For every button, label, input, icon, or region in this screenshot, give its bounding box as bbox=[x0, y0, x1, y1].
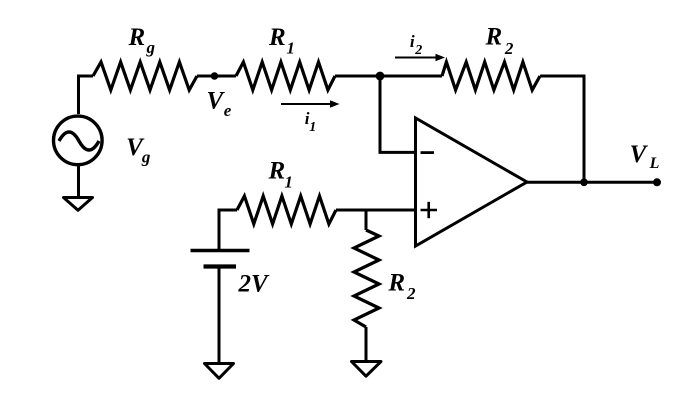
wire bbox=[380, 76, 416, 152]
svg-text:L: L bbox=[649, 155, 660, 172]
wire bbox=[219, 210, 237, 250]
wire bbox=[335, 75, 442, 78]
ground bbox=[352, 362, 382, 377]
wire bbox=[365, 210, 368, 230]
resistor R1 bottom bbox=[237, 196, 336, 224]
svg-text:2: 2 bbox=[406, 284, 416, 303]
resistor R2 feedback bbox=[442, 62, 540, 90]
node summing junction bbox=[376, 72, 385, 81]
svg-text:R: R bbox=[268, 158, 286, 185]
resistor R1 bbox=[236, 62, 335, 90]
svg-text:V: V bbox=[630, 141, 649, 168]
resistor Rg bbox=[93, 62, 197, 90]
current arrow i2 bbox=[395, 54, 445, 62]
svg-text:1: 1 bbox=[309, 120, 316, 135]
svg-text:2V: 2V bbox=[238, 271, 271, 298]
resistor R2 vertical bbox=[354, 230, 379, 327]
svg-text:g: g bbox=[146, 38, 156, 57]
svg-text:2: 2 bbox=[504, 39, 514, 58]
svg-text:V: V bbox=[207, 87, 226, 114]
op-amp U1 bbox=[416, 118, 528, 246]
wire bbox=[218, 267, 221, 364]
wire bbox=[540, 76, 584, 182]
ground bbox=[64, 198, 93, 211]
svg-text:i: i bbox=[410, 32, 415, 51]
ground bbox=[205, 364, 234, 379]
wire bbox=[527, 181, 657, 184]
wire bbox=[336, 209, 416, 212]
voltage source Vg bbox=[54, 116, 103, 165]
svg-text:R: R bbox=[485, 23, 503, 50]
svg-text:R: R bbox=[387, 270, 405, 297]
svg-text:2: 2 bbox=[414, 43, 422, 58]
wire bbox=[79, 76, 94, 114]
svg-text:g: g bbox=[141, 147, 151, 166]
svg-text:R: R bbox=[268, 24, 286, 51]
node Ve bbox=[211, 72, 219, 80]
svg-text:e: e bbox=[224, 101, 232, 120]
svg-text:1: 1 bbox=[286, 39, 295, 58]
svg-text:1: 1 bbox=[284, 173, 293, 192]
battery 2V bbox=[191, 251, 250, 267]
current arrow i1 bbox=[281, 100, 340, 108]
wire bbox=[197, 75, 236, 78]
node VL terminal bbox=[653, 178, 661, 186]
node output junction bbox=[580, 178, 588, 186]
svg-text:R: R bbox=[128, 24, 146, 51]
wire bbox=[365, 327, 368, 361]
wire bbox=[77, 166, 80, 196]
